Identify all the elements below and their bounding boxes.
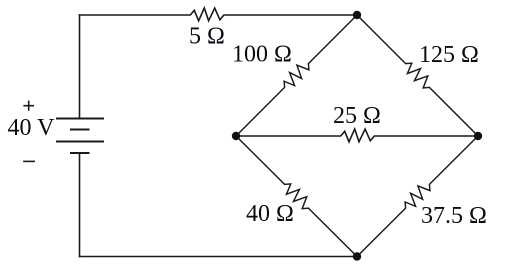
battery minus sign — [24, 160, 34, 162]
svg-text:100 Ω: 100 Ω — [232, 42, 292, 68]
wire left vertical top — [79, 15, 81, 119]
resistor 125 ohm branch — [357, 15, 478, 136]
svg-text:125 Ω: 125 Ω — [419, 42, 479, 68]
resistor 37.5 ohm branch — [357, 136, 478, 257]
svg-text:37.5 Ω: 37.5 Ω — [421, 203, 487, 229]
resistor 40 ohm branch — [236, 136, 357, 257]
node bottom — [353, 252, 361, 260]
node left — [232, 132, 240, 140]
resistor 25 ohm branch — [236, 129, 478, 142]
wire left vertical bottom — [79, 153, 81, 257]
node right — [474, 132, 482, 140]
resistor 100 ohm branch — [236, 15, 357, 136]
wire bottom — [80, 256, 358, 258]
wire top with resistor 5 ohm — [80, 8, 358, 21]
svg-text:5 Ω: 5 Ω — [189, 24, 225, 50]
battery plus sign — [24, 101, 33, 110]
node top — [353, 11, 361, 19]
svg-text:40 V: 40 V — [8, 115, 56, 141]
svg-text:40 Ω: 40 Ω — [246, 201, 294, 227]
battery 40 V — [57, 119, 103, 154]
svg-text:25 Ω: 25 Ω — [333, 103, 381, 129]
